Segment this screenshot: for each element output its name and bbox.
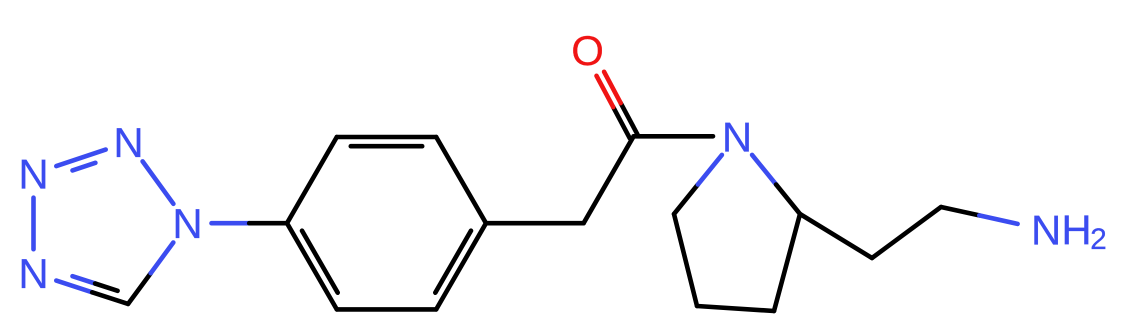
wire benzene bond C1-C2 [287, 137, 337, 223]
wire bond C2-CH2a (aminoethyl chain) [800, 214, 872, 258]
wire bond CH2-C(=O) [584, 136, 634, 223]
wire bond C3-C4 (pyrrolidine) [697, 306, 774, 311]
wire benzene double bond C4=C5 [436, 223, 486, 309]
wire bond CH2a-CH2b (aminoethyl chain) [872, 207, 941, 258]
wire bond N1-phenyl [212, 221, 250, 226]
svg-text:N: N [113, 119, 143, 166]
wire bond C5-N (pyrrolidine) [674, 185, 698, 215]
wire bond C5-N1 (tetrazole) [128, 273, 151, 304]
wire double bond C=O (carbonyl) [621, 103, 638, 134]
svg-text:N: N [172, 200, 202, 247]
svg-text:O: O [571, 27, 604, 74]
wire amide bond C-N [634, 134, 713, 139]
wire bond N-C2 (pyrrolidine) [752, 155, 776, 185]
wire bond C4-C5 (pyrrolidine) [674, 214, 697, 306]
wire double bond N4=C5 (tetrazole) [56, 281, 92, 293]
wire bond N1-N2 (tetrazole) [143, 161, 174, 203]
wire benzene bond C3-C4 [436, 137, 486, 223]
wire benzene double bond C6=C1 [287, 223, 337, 309]
wire bond N3-N4 (tetrazole) [31, 198, 36, 250]
wire bond CH2b-NH2 [941, 207, 979, 215]
wire benzene bond C5-C6 [337, 307, 436, 312]
wire benzene double bond C2=C3 [337, 135, 436, 140]
wire bond phenyl-CH2 [486, 221, 584, 226]
svg-text:N: N [18, 151, 48, 198]
wire double bond N2=N3 (tetrazole) [56, 150, 105, 167]
svg-text:NH2: NH2 [1031, 207, 1107, 257]
wire bond C2-C3 (pyrrolidine) [774, 214, 800, 311]
svg-text:N: N [722, 113, 752, 160]
svg-text:N: N [18, 250, 48, 297]
